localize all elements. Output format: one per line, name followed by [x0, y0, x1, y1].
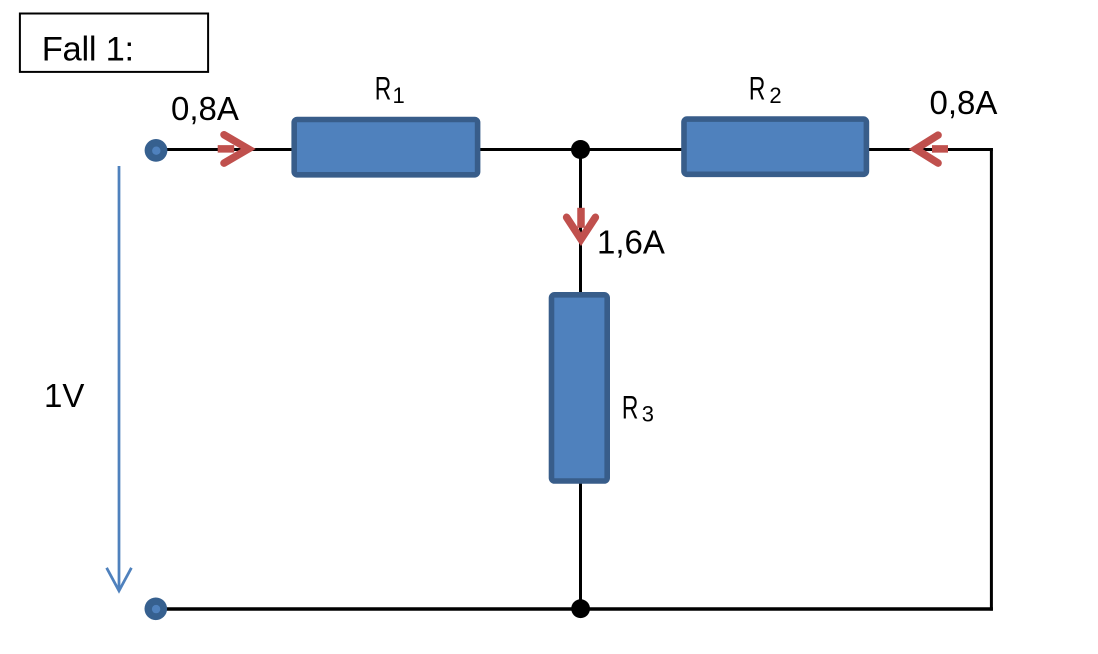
- svg-text:R: R: [375, 71, 392, 107]
- label "Fall 1:" box: [20, 14, 208, 72]
- svg-text:0,8A: 0,8A: [930, 84, 998, 121]
- terminal bottom-left: [145, 598, 168, 621]
- resistor R2: [684, 119, 866, 174]
- current arrow 0,8A left (red, pointing right): [218, 135, 249, 163]
- current arrow 1,6A (red, pointing down): [567, 208, 596, 240]
- svg-text:Fall 1:: Fall 1:: [42, 31, 134, 69]
- label R2: [749, 71, 782, 108]
- terminal top-left: [145, 139, 168, 162]
- svg-text:R: R: [622, 389, 639, 425]
- wire R2 to top-right corner: [867, 148, 993, 151]
- svg-text:1,6A: 1,6A: [597, 223, 665, 260]
- wire right side vertical: [990, 148, 993, 611]
- label R3: [622, 389, 654, 426]
- resistor R3: [552, 295, 608, 481]
- node B (bottom junction): [571, 599, 590, 618]
- wire top node to R2: [579, 148, 683, 151]
- wire middle vertical (node to R3 to bottom node): [579, 150, 582, 610]
- current arrow 0,8A right (red, pointing left): [916, 135, 948, 163]
- wire top-left segment (terminal to R1): [156, 148, 293, 151]
- svg-text:1: 1: [393, 83, 405, 108]
- resistor R1: [294, 120, 477, 175]
- svg-text:1V: 1V: [44, 377, 84, 414]
- wire R1 to top node: [478, 148, 582, 151]
- svg-text:R: R: [749, 71, 766, 107]
- svg-text:2: 2: [769, 83, 781, 108]
- voltage arrow 1V (blue, pointing down): [107, 166, 132, 591]
- svg-text:3: 3: [642, 402, 654, 427]
- wire bottom horizontal: [156, 607, 993, 611]
- node A (top junction): [571, 140, 590, 159]
- label R1: [375, 71, 405, 108]
- svg-text:0,8A: 0,8A: [171, 90, 239, 127]
